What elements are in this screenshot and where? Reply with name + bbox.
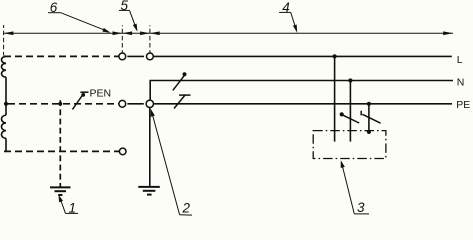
label 4 (installation section) with leader bbox=[279, 0, 297, 33]
terminal circle on L at x=149.9 bbox=[147, 53, 154, 60]
wire: dashed earthing conductor down from PEN bbox=[59, 100, 61, 187]
label 5 (distribution section) with leader bbox=[119, 0, 138, 32]
PEN marker (slash with bar and dot) bbox=[72, 92, 88, 109]
wire: PEN earth at entry (vertical) bbox=[149, 108, 151, 187]
ground: source earth electrode bbox=[50, 187, 71, 195]
wire: PE drop to equipment frame bbox=[368, 104, 370, 132]
svg-text:PE: PE bbox=[456, 99, 470, 111]
wire: third source conductor dashed bbox=[4, 150, 119, 152]
N conductor marker (slash with dot) bbox=[173, 72, 187, 90]
equipment enclosure (chain-line box) bbox=[313, 131, 386, 159]
extension line at installation entry (x=149.9) bbox=[149, 25, 151, 53]
label 3 (equipment) with leader bbox=[341, 160, 369, 215]
svg-text:2: 2 bbox=[182, 201, 191, 216]
wire: N riser from split junction bbox=[150, 81, 453, 101]
transformer winding W2 (bottom) bbox=[1, 115, 6, 138]
junction dot: PE bond to equipment frame bbox=[367, 130, 371, 134]
svg-text:5: 5 bbox=[121, 0, 129, 13]
wire: PE conductor from split junction bbox=[154, 103, 453, 105]
dimension line (top) bbox=[4, 32, 453, 34]
terminal circle on third conductor bbox=[119, 148, 126, 155]
svg-text:L: L bbox=[457, 54, 463, 66]
PE drop marker (slash with bar) bbox=[361, 111, 380, 124]
terminal circle on PEN at x=122.3 bbox=[119, 100, 126, 107]
node: PEN split junction (open circle) bbox=[146, 100, 153, 107]
PE conductor marker (slash with bar) bbox=[174, 95, 191, 109]
wire: L conductor dashed (source side) bbox=[4, 55, 119, 57]
svg-text:1: 1 bbox=[68, 201, 76, 216]
ground: earth electrode at installation entry bbox=[138, 187, 160, 195]
wire: L drop to equipment bbox=[334, 56, 336, 141]
wire: L conductor solid (installation side) bbox=[153, 55, 451, 57]
transformer winding W1 (top) bbox=[1, 56, 6, 77]
junction dot on PE for load tap bbox=[367, 102, 371, 106]
wire: winding W2 bottom to line conductor bbox=[5, 138, 7, 151]
label 1 (source earth) with leader bbox=[59, 195, 79, 216]
wire: N drop to equipment bbox=[349, 81, 351, 142]
wire: PEN conductor dashed bbox=[8, 103, 119, 105]
junction dot on L for load tap bbox=[333, 54, 337, 58]
junction dot on N for load tap bbox=[348, 78, 352, 82]
wire: winding W1 bottom to PEN junction bbox=[5, 77, 7, 104]
wire: star point to winding W2 bbox=[5, 104, 7, 115]
label 2 (entry earth) with leader bbox=[151, 109, 192, 216]
terminal circle on L at x=122.3 bbox=[119, 53, 126, 60]
N drop marker (slash with dot) bbox=[340, 112, 360, 123]
svg-text:N: N bbox=[457, 77, 465, 89]
svg-text:3: 3 bbox=[357, 200, 365, 215]
dimension arrowheads bbox=[4, 31, 453, 35]
wire: L dashed between terminals bbox=[127, 55, 144, 57]
junction dot: PEN earthing tap bbox=[58, 102, 62, 106]
svg-text:PEN: PEN bbox=[90, 87, 112, 99]
wire: PEN dashed to split junction bbox=[127, 103, 143, 105]
label 6 (source section) with leader bbox=[48, 0, 111, 33]
junction dot: source star point bbox=[4, 102, 8, 106]
extension line at installation origin (x=122.3) bbox=[121, 25, 123, 53]
extension line left (x=3.6) bbox=[3, 25, 5, 56]
